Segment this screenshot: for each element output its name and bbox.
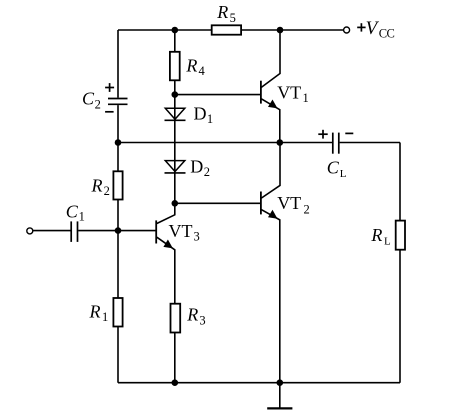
svg-text:4: 4 [199,64,206,78]
resistor R4 [170,52,206,81]
wire top rail [118,29,344,31]
svg-text:R: R [186,305,198,325]
svg-text:R: R [370,225,382,245]
svg-text:VT: VT [277,193,301,213]
svg-text:D: D [190,156,203,176]
capacitor C1 [66,201,85,242]
wire VT1 emitter lead [261,99,280,143]
node top VT1 collector junction [277,27,284,34]
svg-text:CC: CC [379,26,395,40]
wire R4/D1/D2 branch [174,30,176,203]
wire VT1 collector lead [261,30,280,87]
terminal input [27,228,33,234]
transistor VT1 [261,81,309,109]
svg-text:C: C [66,201,79,221]
svg-text:L: L [340,168,347,180]
svg-text:1: 1 [79,210,85,224]
svg-text:R: R [185,55,197,75]
svg-text:C: C [327,157,340,177]
svg-text:C: C [82,89,95,109]
transistor VT2 [261,192,310,219]
svg-text:R: R [216,2,228,22]
resistor RL [370,221,405,250]
svg-text:L: L [384,236,391,248]
wire middle rail right of CL [340,142,400,144]
wire VT3 collector lead [157,203,175,223]
wire VT2 emitter lead [261,210,280,383]
svg-text:2: 2 [304,203,310,217]
svg-text:2: 2 [204,165,210,179]
wire C2 bottom lead [117,105,119,142]
node C2 middle junction [115,139,122,146]
svg-text:1: 1 [207,112,213,126]
capacitor CL [318,130,353,180]
resistor R3 [171,304,206,333]
svg-text:R: R [91,176,103,196]
capacitor C2 [82,83,128,112]
diode D2 [165,156,210,179]
svg-text:5: 5 [230,11,236,25]
resistor R5 [212,2,241,35]
wire middle rail left of CL [118,142,332,144]
svg-text:1: 1 [303,91,309,105]
wire left rail (R2/R1 branch) [117,143,119,383]
resistor R2 [91,171,123,199]
wire C1 to VT3 base [78,230,156,232]
node ground junction [277,379,284,386]
wire VT2 collector lead [261,143,280,199]
wire C2 top lead [117,30,119,98]
terminal +VCC [344,18,395,41]
svg-text:1: 1 [102,310,108,324]
wire bottom rail [118,382,400,384]
node R3 bottom junction [172,379,179,386]
svg-text:R: R [89,302,101,322]
wire VT1 base [175,94,260,96]
svg-text:D: D [194,103,207,123]
node VT1 emitter junction [277,139,284,146]
svg-text:VT: VT [169,221,193,241]
wire VT3 emitter lead (R3 branch) [157,237,175,383]
svg-text:VT: VT [277,82,301,102]
node top R4 junction [172,27,179,34]
svg-text:3: 3 [194,230,200,244]
node VT2 base junction [172,200,179,207]
resistor R1 [89,298,123,327]
svg-text:3: 3 [199,313,205,327]
wire input to C1 [33,230,71,232]
node input junction [115,227,122,234]
node VT1 base junction [172,91,179,98]
svg-text:2: 2 [95,97,101,111]
diode D1 [165,103,214,126]
svg-text:2: 2 [104,184,110,198]
wire right rail (RL branch) [399,143,401,383]
transistor VT3 [156,220,200,248]
wire VT2 base [175,202,260,204]
ground [267,383,292,409]
